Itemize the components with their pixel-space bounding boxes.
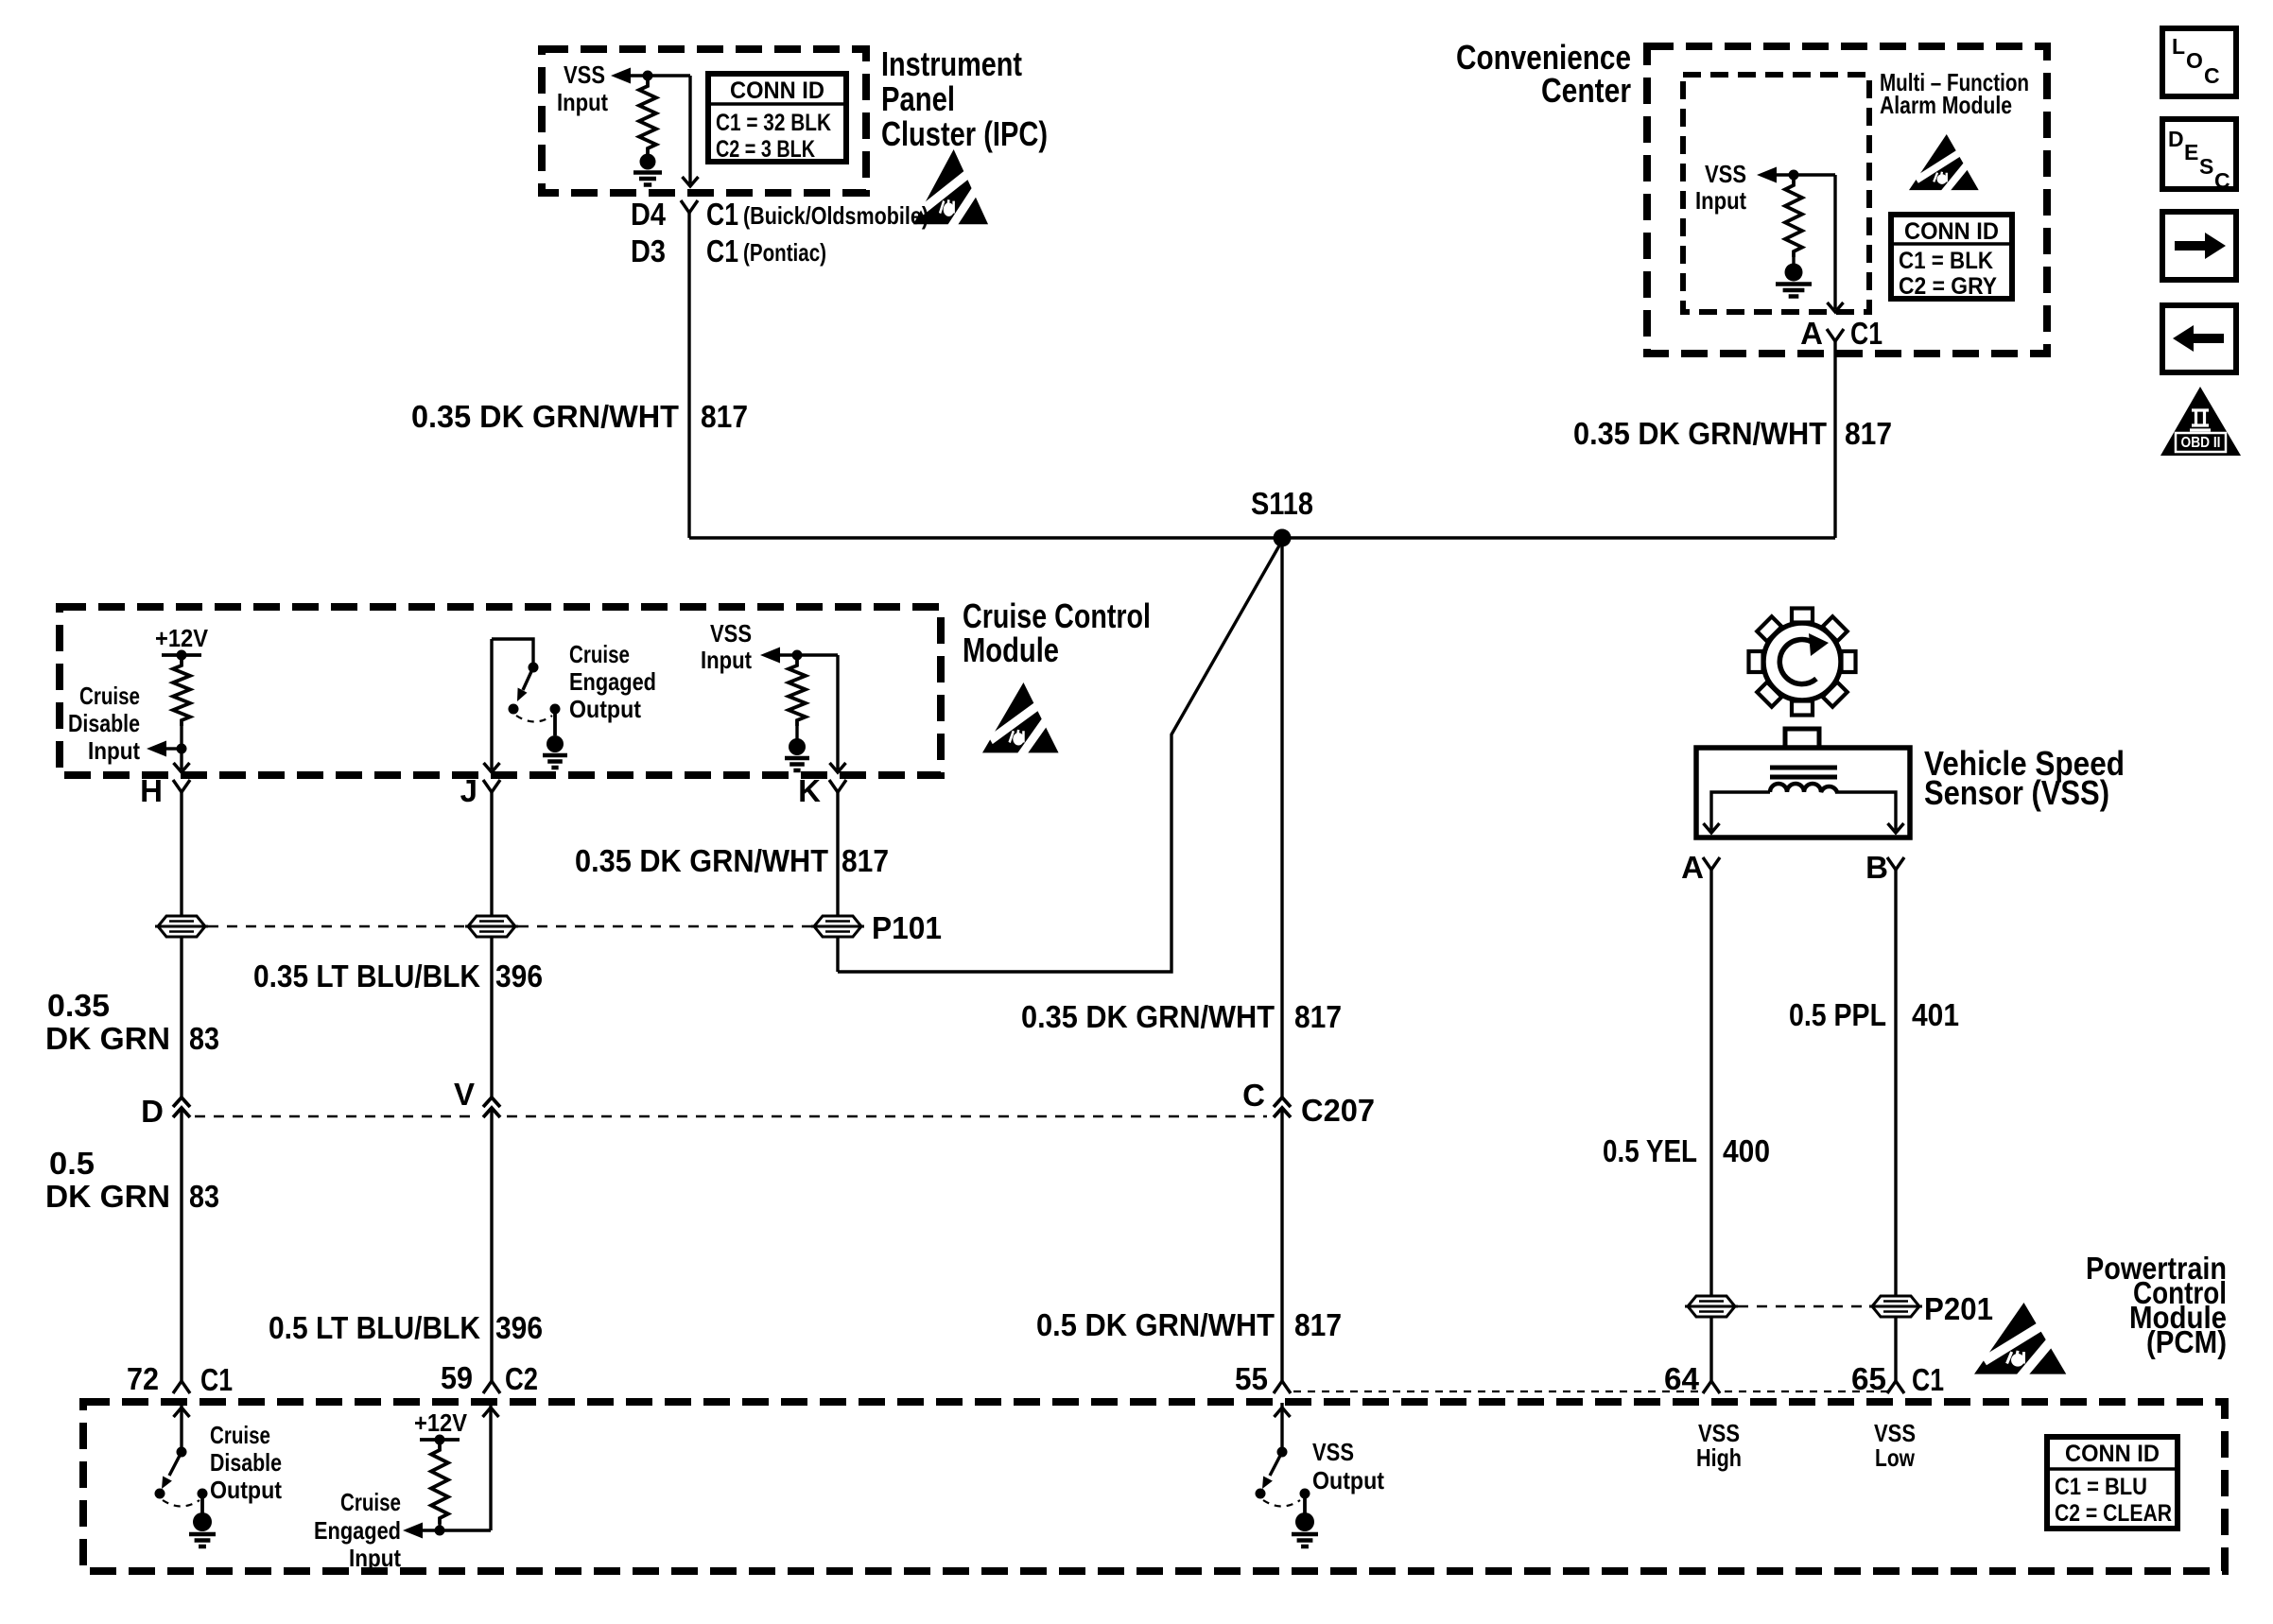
- arrow VSS Input (IPC): [611, 68, 631, 84]
- connector P101 at J: [465, 916, 518, 937]
- splice S118 dot: [1274, 529, 1292, 547]
- svg-text:DK GRN: DK GRN: [45, 1021, 170, 1056]
- svg-text:83: 83: [189, 1179, 219, 1214]
- svg-text:817: 817: [842, 843, 889, 878]
- resistor (IPC pull-up): [639, 80, 656, 154]
- connector C1 pin row dashed line: [1293, 1391, 1698, 1392]
- module box: Powertrain Control Module, dashed: [83, 1402, 2225, 1571]
- VSS coil: [1770, 784, 1837, 792]
- svg-text:V: V: [454, 1077, 475, 1112]
- ground (VSS output switch): [1295, 1512, 1314, 1531]
- svg-text:CONN ID: CONN ID: [730, 78, 824, 104]
- connector P201 at B: [1869, 1296, 1922, 1317]
- VSS coil leads: [1711, 792, 1770, 830]
- svg-text:0.5: 0.5: [49, 1146, 95, 1181]
- connector P101 at K: [811, 916, 864, 937]
- svg-text:C2: C2: [505, 1361, 538, 1396]
- svg-text:K: K: [798, 773, 821, 808]
- switch ground stem dot (cruise): [550, 704, 561, 715]
- wire to pin K: [836, 655, 839, 769]
- module box: Cruise Control Module, dashed: [60, 607, 941, 775]
- wire V to PCM 59: [490, 1108, 493, 1381]
- switch pivot dot (cruise disable output): [177, 1447, 187, 1458]
- svg-text:O: O: [2186, 48, 2203, 73]
- svg-text:Cluster (IPC): Cluster (IPC): [881, 114, 1048, 153]
- +12V bar (PCM): [420, 1438, 460, 1442]
- svg-text:0.5 DK GRN/WHT: 0.5 DK GRN/WHT: [1036, 1307, 1275, 1342]
- resistor (cruise disable pull-up): [173, 660, 190, 726]
- svg-text:817: 817: [701, 399, 748, 434]
- svg-text:0.35 DK GRN/WHT: 0.35 DK GRN/WHT: [411, 399, 679, 434]
- svg-text:S: S: [2199, 154, 2213, 179]
- svg-text:H: H: [140, 773, 163, 808]
- svg-text:(PCM): (PCM): [2146, 1324, 2227, 1359]
- svg-text:817: 817: [1294, 1307, 1342, 1342]
- ground (IPC): [640, 154, 656, 170]
- svg-text:C1: C1: [200, 1362, 233, 1397]
- wire K to P101 and corner: [836, 792, 839, 972]
- svg-text:+12V: +12V: [414, 1408, 468, 1437]
- svg-text:C1 = BLK: C1 = BLK: [1899, 248, 1993, 274]
- svg-text:C1: C1: [706, 197, 738, 232]
- svg-text:396: 396: [495, 1310, 543, 1345]
- +12V supply bar (cruise): [162, 653, 201, 657]
- svg-text:D4: D4: [631, 197, 667, 232]
- svg-text:C1: C1: [1912, 1362, 1944, 1397]
- svg-text:0.35 DK GRN/WHT: 0.35 DK GRN/WHT: [1573, 416, 1827, 451]
- wire H to P101: [180, 792, 182, 1097]
- svg-text:P101: P101: [872, 910, 942, 945]
- svg-text:C: C: [1242, 1078, 1265, 1113]
- svg-text:VSS: VSS: [710, 619, 752, 648]
- svg-text:Disable: Disable: [210, 1448, 282, 1477]
- svg-text:C1 = BLU: C1 = BLU: [2055, 1474, 2147, 1500]
- wire J to P101: [490, 792, 493, 1097]
- svg-text:VSS: VSS: [564, 60, 605, 89]
- switch pivot dot (cruise): [529, 663, 539, 673]
- svg-text:Engaged: Engaged: [569, 667, 656, 696]
- switch arm (VSS output): [1270, 1452, 1282, 1476]
- svg-text:400: 400: [1723, 1133, 1770, 1168]
- svg-text:D: D: [2168, 127, 2184, 151]
- svg-text:D3: D3: [631, 233, 666, 268]
- svg-text:Alarm Module: Alarm Module: [1880, 91, 2012, 119]
- icon box DESC: [2162, 119, 2236, 189]
- svg-text:0.35 DK GRN/WHT: 0.35 DK GRN/WHT: [575, 843, 828, 878]
- svg-text:Output: Output: [1312, 1466, 1384, 1494]
- svg-text:CONN ID: CONN ID: [1904, 218, 1999, 245]
- connector P101 at H: [155, 916, 208, 937]
- svg-text:Cruise: Cruise: [569, 640, 630, 668]
- ground (Convenience): [1785, 264, 1803, 282]
- CONN ID table (Convenience): [1891, 215, 2012, 299]
- ground (cruise engaged switch): [547, 735, 564, 752]
- svg-text:Input: Input: [557, 88, 608, 116]
- svg-text:L: L: [2172, 34, 2185, 59]
- wire diagonal from S118 to cruise K branch: [838, 541, 1282, 972]
- connector P201 at A: [1685, 1296, 1738, 1317]
- module box: Instrument Panel Cluster (IPC), dashed: [542, 49, 866, 193]
- svg-text:DK GRN: DK GRN: [45, 1179, 170, 1214]
- wire C to PCM 55: [1280, 1108, 1283, 1381]
- svg-text:Instrument: Instrument: [881, 44, 1022, 83]
- junction dot cruise disable: [177, 744, 187, 754]
- svg-text:0.5 PPL: 0.5 PPL: [1789, 997, 1886, 1032]
- svg-text:817: 817: [1845, 416, 1892, 451]
- svg-text:C207: C207: [1301, 1093, 1375, 1128]
- arrow Cruise Disable Input: [147, 741, 166, 757]
- svg-text:(Pontiac): (Pontiac): [743, 238, 826, 267]
- svg-text:0.35 LT BLU/BLK: 0.35 LT BLU/BLK: [253, 959, 480, 993]
- svg-text:OBD II: OBD II: [2181, 435, 2221, 451]
- svg-text:A: A: [1681, 850, 1704, 885]
- icon box LOC: [2162, 28, 2236, 96]
- svg-text:C1: C1: [1850, 316, 1883, 351]
- svg-text:Sensor (VSS): Sensor (VSS): [1924, 773, 2109, 812]
- svg-text:C2 = GRY: C2 = GRY: [1899, 273, 1997, 300]
- svg-text:+12V: +12V: [155, 624, 209, 652]
- wire pin 55 into PCM: [1280, 1403, 1283, 1447]
- svg-text:Low: Low: [1875, 1443, 1916, 1472]
- svg-text:C2 = CLEAR: C2 = CLEAR: [2055, 1500, 2172, 1527]
- svg-text:VSS: VSS: [1705, 160, 1746, 188]
- ESD symbol (PCM): [1974, 1303, 2066, 1377]
- junction dot (IPC): [643, 71, 653, 81]
- svg-text:C2 = 3 BLK: C2 = 3 BLK: [716, 136, 815, 163]
- switch stem dot (VSS output): [1300, 1489, 1310, 1499]
- ESD symbol (IPC): [913, 149, 988, 228]
- wire engaged input to pin 59: [489, 1403, 492, 1530]
- svg-text:C1: C1: [706, 233, 738, 268]
- svg-text:Input: Input: [701, 646, 752, 674]
- switch dashed arc (cruise): [516, 716, 552, 722]
- connector P101 row dashed link: [208, 925, 465, 928]
- switch pivot dot (VSS output): [1277, 1447, 1288, 1458]
- svg-text:0.5 YEL: 0.5 YEL: [1603, 1133, 1697, 1168]
- junction dot VSS input (cruise): [792, 650, 803, 661]
- svg-text:817: 817: [1294, 999, 1342, 1034]
- switch arm (cruise disable output): [169, 1452, 182, 1476]
- svg-text:E: E: [2184, 140, 2198, 164]
- wire switch to pin J: [490, 639, 493, 769]
- connector P201 dashed link: [1738, 1305, 1869, 1308]
- module box: Convenience Center, dashed: [1647, 46, 2047, 354]
- switch contact dot (VSS output): [1256, 1489, 1266, 1499]
- svg-text:D: D: [141, 1094, 164, 1129]
- svg-text:B: B: [1865, 850, 1888, 885]
- svg-text:C: C: [2204, 63, 2220, 88]
- arrow VSS Input (cruise): [760, 648, 780, 664]
- svg-text:C: C: [2214, 168, 2230, 193]
- svg-text:C1 = 32 BLK: C1 = 32 BLK: [716, 110, 831, 136]
- connector C207 dashed row: [195, 1115, 477, 1118]
- resistor (cruise engaged pull-up): [431, 1444, 448, 1524]
- wire 817 from Convenience down to S118: [1833, 341, 1836, 538]
- svg-text:Output: Output: [569, 695, 641, 723]
- svg-text:0.35: 0.35: [47, 988, 110, 1023]
- wire VSS B down to P201: [1894, 870, 1897, 1381]
- switch contact dot: [155, 1489, 165, 1499]
- svg-text:59: 59: [441, 1360, 473, 1395]
- svg-text:Output: Output: [210, 1476, 282, 1504]
- svg-text:Input: Input: [88, 736, 140, 765]
- svg-text:Cruise: Cruise: [210, 1421, 270, 1449]
- VSS core bars: [1770, 766, 1837, 770]
- svg-text:Cruise: Cruise: [79, 682, 140, 710]
- CONN ID table (IPC): [708, 74, 846, 162]
- svg-text:Disable: Disable: [68, 709, 140, 737]
- svg-text:Cruise Control: Cruise Control: [963, 596, 1151, 635]
- svg-text:401: 401: [1912, 997, 1959, 1032]
- icon box arrow right: [2162, 212, 2236, 280]
- ground (cruise disable switch): [193, 1512, 212, 1531]
- svg-text:S118: S118: [1251, 486, 1313, 521]
- switch arm (cruise): [523, 667, 533, 690]
- wire S118 down to C207 pin C: [1280, 538, 1283, 1097]
- VSS reluctor gear icon: [1749, 609, 1856, 716]
- svg-text:83: 83: [189, 1021, 219, 1056]
- junction dot (Convenience): [1789, 170, 1799, 181]
- wire VSS A down to P201: [1709, 870, 1712, 1381]
- svg-text:Cruise: Cruise: [340, 1488, 401, 1516]
- svg-text:72: 72: [127, 1361, 159, 1396]
- icon OBD II triangle: [2160, 387, 2241, 456]
- wire 817 from IPC down to S118: [687, 213, 690, 538]
- arrow VSS Input (Convenience): [1757, 167, 1777, 183]
- svg-text:55: 55: [1235, 1361, 1268, 1396]
- wire S118 horizontal bus: [689, 536, 1835, 539]
- wire to pin A (Convenience): [1833, 175, 1836, 309]
- switch dashed arc: [163, 1500, 200, 1507]
- svg-text:0.5 LT BLU/BLK: 0.5 LT BLU/BLK: [269, 1310, 480, 1345]
- svg-text:(Buick/Oldsmobile): (Buick/Oldsmobile): [743, 201, 928, 230]
- resistor (Convenience): [1785, 180, 1802, 257]
- svg-text:A: A: [1800, 316, 1823, 351]
- wire D to PCM 72: [180, 1108, 182, 1381]
- svg-text:High: High: [1696, 1443, 1742, 1472]
- svg-text:P201: P201: [1924, 1291, 1993, 1326]
- svg-text:Input: Input: [1695, 186, 1746, 215]
- svg-text:Input: Input: [349, 1544, 401, 1572]
- svg-text:CONN ID: CONN ID: [2065, 1441, 2160, 1467]
- resistor (cruise VSS): [789, 660, 806, 726]
- junction resistor to wire: [438, 1524, 441, 1530]
- icon box arrow left: [2162, 305, 2236, 372]
- switch stem dot: [198, 1489, 208, 1499]
- ESD symbol (Cruise Control Module): [982, 682, 1059, 756]
- module box: Multi-Function Alarm Module, dashed inner: [1683, 75, 1869, 312]
- svg-text:65: 65: [1851, 1361, 1886, 1396]
- switch branch (cruise engaged output): [492, 639, 533, 663]
- wire pin 72 into PCM: [180, 1403, 182, 1447]
- VSS sensor box: [1696, 748, 1910, 838]
- svg-text:64: 64: [1664, 1361, 1700, 1396]
- svg-text:Center: Center: [1541, 71, 1631, 110]
- ground (cruise VSS): [789, 738, 806, 755]
- svg-text:396: 396: [495, 959, 543, 993]
- wire IPC internal to pin D4: [688, 76, 691, 183]
- switch contact dot (cruise): [509, 704, 519, 715]
- switch dashed arc (VSS output): [1263, 1500, 1300, 1507]
- wire junction to pin H: [180, 726, 182, 769]
- svg-text:Panel: Panel: [881, 79, 955, 118]
- CONN ID table (PCM): [2047, 1437, 2178, 1529]
- svg-text:Module: Module: [963, 631, 1059, 669]
- arrow Cruise Engaged Input: [403, 1523, 423, 1539]
- svg-text:J: J: [460, 773, 477, 808]
- ESD symbol (Convenience Center): [1909, 134, 1979, 193]
- svg-text:VSS: VSS: [1312, 1438, 1354, 1466]
- svg-text:0.35 DK GRN/WHT: 0.35 DK GRN/WHT: [1021, 999, 1275, 1034]
- svg-text:Engaged: Engaged: [314, 1516, 401, 1545]
- VSS mounting stub: [1785, 729, 1819, 748]
